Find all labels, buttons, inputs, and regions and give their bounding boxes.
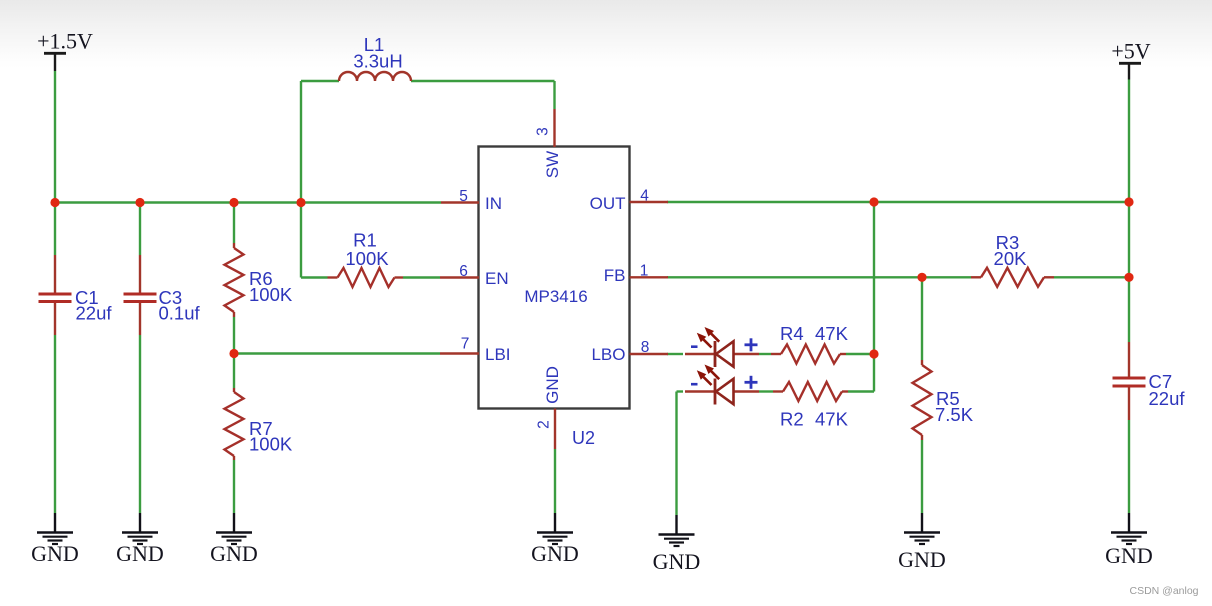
wire L1 left bbox=[301, 80, 339, 82]
wire C1 to GND bbox=[54, 335, 56, 513]
svg-text:8: 8 bbox=[641, 339, 650, 356]
svg-text:R2: R2 bbox=[780, 409, 804, 430]
LED D1 bbox=[685, 327, 759, 367]
pin 8 LBO stub bbox=[630, 353, 669, 355]
pin name LBO bbox=[591, 345, 625, 364]
capacitor C1 22uf bbox=[39, 255, 113, 335]
svg-text:22uf: 22uf bbox=[1149, 388, 1186, 409]
wire L1 to SW corner bbox=[411, 80, 555, 82]
svg-text:+1.5V: +1.5V bbox=[37, 29, 93, 54]
junction node (301,202.5) bbox=[296, 198, 305, 207]
ground LED2 bbox=[653, 515, 701, 574]
svg-text:100K: 100K bbox=[249, 434, 293, 455]
wire FB to R3 bbox=[667, 276, 971, 278]
wire LED1 to R4 bbox=[759, 353, 771, 355]
resistor R1 100K bbox=[328, 230, 404, 288]
junction node (1129,277.3) bbox=[1124, 273, 1133, 282]
svg-text:GND: GND bbox=[31, 541, 79, 566]
svg-text:U2: U2 bbox=[572, 428, 595, 448]
svg-text:47K: 47K bbox=[815, 323, 849, 344]
svg-text:LBO: LBO bbox=[591, 345, 625, 364]
pin 7 LBI stub bbox=[440, 352, 479, 354]
pin name IN bbox=[485, 194, 502, 213]
wire LBI net bbox=[234, 352, 440, 354]
wire R6 bottom bbox=[233, 317, 235, 354]
svg-text:MP3416: MP3416 bbox=[524, 287, 587, 306]
svg-text:7.5K: 7.5K bbox=[935, 404, 974, 425]
junction node (922,277.3) bbox=[917, 273, 926, 282]
svg-text:100K: 100K bbox=[249, 284, 293, 305]
wire input bus bbox=[55, 201, 441, 203]
resistor R2 47K bbox=[773, 382, 849, 430]
wire R5 to GND bbox=[921, 440, 923, 513]
resistor R6 100K bbox=[225, 243, 293, 317]
junction node (874,202) bbox=[869, 197, 878, 206]
wire OUT riser bbox=[873, 202, 875, 392]
op-amp U2 MP3416 body bbox=[479, 147, 630, 409]
pin number 2 bbox=[536, 420, 553, 429]
pin name SW bbox=[543, 151, 562, 178]
capacitor C7 22uf bbox=[1113, 342, 1186, 420]
ground C7 bbox=[1105, 513, 1153, 568]
junction node (234,202.5) bbox=[229, 198, 238, 207]
svg-text:4: 4 bbox=[640, 188, 649, 205]
pin name LBI bbox=[485, 345, 511, 364]
LED D2 bbox=[685, 365, 759, 405]
svg-text:CSDN @anlog: CSDN @anlog bbox=[1130, 585, 1199, 597]
wire C3 to GND bbox=[139, 335, 141, 513]
pin number 5 bbox=[459, 188, 468, 205]
svg-text:FB: FB bbox=[604, 266, 626, 285]
svg-text:GND: GND bbox=[1105, 543, 1153, 568]
svg-text:2: 2 bbox=[536, 420, 553, 429]
wire R1 to EN bbox=[403, 276, 440, 278]
inductor L1 3.3uH bbox=[339, 34, 411, 81]
wire C3 top bbox=[139, 203, 141, 256]
wire R2 right bbox=[848, 390, 874, 392]
svg-text:IN: IN bbox=[485, 194, 502, 213]
svg-text:22uf: 22uf bbox=[76, 303, 113, 324]
svg-text:100K: 100K bbox=[345, 248, 389, 269]
svg-text:GND: GND bbox=[116, 541, 164, 566]
svg-text:OUT: OUT bbox=[590, 194, 626, 213]
pin 2 GND stub bbox=[554, 409, 556, 450]
pin name EN bbox=[485, 269, 509, 288]
pin name OUT bbox=[590, 194, 626, 213]
wire C1 top bbox=[54, 203, 56, 256]
designator U2 bbox=[572, 428, 595, 448]
wire LED2 to R2 bbox=[759, 390, 773, 392]
pin number 7 bbox=[461, 336, 470, 353]
pin number 6 bbox=[459, 263, 468, 280]
ground R7 bbox=[210, 513, 258, 566]
pin 5 IN stub bbox=[441, 201, 479, 203]
ground U2 bbox=[531, 513, 579, 566]
svg-text:R4: R4 bbox=[780, 323, 804, 344]
resistor R5 7.5K bbox=[913, 360, 974, 440]
junction node (55,202.5) bbox=[50, 198, 59, 207]
wire R1 left bbox=[301, 276, 328, 278]
svg-text:+5V: +5V bbox=[1111, 39, 1150, 64]
power rail +1.5V bbox=[37, 29, 93, 72]
junction node (234,353.5) bbox=[229, 349, 238, 358]
wire SW drop bbox=[553, 81, 555, 109]
svg-text:7: 7 bbox=[461, 336, 470, 353]
svg-text:GND: GND bbox=[210, 541, 258, 566]
svg-text:5: 5 bbox=[459, 188, 468, 205]
pin 6 EN stub bbox=[440, 276, 479, 278]
wire R7 top bbox=[233, 354, 235, 389]
wire LED2 GND drop bbox=[675, 392, 677, 516]
wire R4 to node bbox=[846, 353, 874, 355]
svg-text:20K: 20K bbox=[994, 248, 1028, 269]
pin 1 FB stub bbox=[630, 276, 669, 278]
svg-text:SW: SW bbox=[543, 151, 562, 178]
svg-text:0.1uf: 0.1uf bbox=[159, 303, 201, 324]
svg-text:GND: GND bbox=[653, 549, 701, 574]
svg-text:LBI: LBI bbox=[485, 345, 511, 364]
svg-text:GND: GND bbox=[543, 366, 562, 404]
power rail +5V bbox=[1111, 39, 1150, 80]
resistor R3 20K bbox=[971, 232, 1054, 287]
svg-text:1: 1 bbox=[640, 263, 649, 280]
svg-text:47K: 47K bbox=[815, 409, 849, 430]
svg-text:6: 6 bbox=[459, 263, 468, 280]
wire LBO to LED1 bbox=[667, 353, 683, 355]
pin name GND bbox=[543, 366, 562, 404]
wire U2 GND pin drop bbox=[554, 449, 556, 513]
pin number 8 bbox=[641, 339, 650, 356]
ground C3 bbox=[116, 513, 164, 566]
junction node (140,202.5) bbox=[135, 198, 144, 207]
pin 4 OUT stub bbox=[630, 201, 669, 203]
junction node (874,354) bbox=[869, 349, 878, 358]
pin number 3 bbox=[535, 127, 552, 136]
wire +5V drop bbox=[1128, 80, 1130, 343]
ground C1 bbox=[31, 513, 79, 566]
svg-text:GND: GND bbox=[898, 547, 946, 572]
pin 3 SW stub bbox=[553, 109, 555, 147]
junction node (1129,202) bbox=[1124, 197, 1133, 206]
wire LED2 left bbox=[677, 390, 684, 392]
svg-text:3.3uH: 3.3uH bbox=[353, 51, 402, 72]
wire R3 right bbox=[1054, 276, 1129, 278]
wire OUT bus bbox=[667, 201, 1129, 203]
resistor R7 100K bbox=[225, 388, 293, 460]
pin number 1 bbox=[640, 263, 649, 280]
wire R6 top bbox=[233, 203, 235, 244]
ground R5 bbox=[898, 513, 946, 572]
pin name FB bbox=[604, 266, 626, 285]
resistor R4 47K bbox=[771, 323, 849, 364]
svg-text:3: 3 bbox=[535, 127, 552, 136]
watermark bbox=[1130, 585, 1199, 597]
capacitor C3 0.1uf bbox=[124, 255, 201, 335]
wire L1 left riser bbox=[300, 81, 302, 278]
wire FB to R5 bbox=[921, 277, 923, 360]
wire C7 to GND bbox=[1128, 420, 1130, 513]
pin number 4 bbox=[640, 188, 649, 205]
svg-text:GND: GND bbox=[531, 541, 579, 566]
svg-text:EN: EN bbox=[485, 269, 509, 288]
wire R7 to GND bbox=[233, 460, 235, 513]
wire +1.5V drop bbox=[54, 71, 56, 203]
